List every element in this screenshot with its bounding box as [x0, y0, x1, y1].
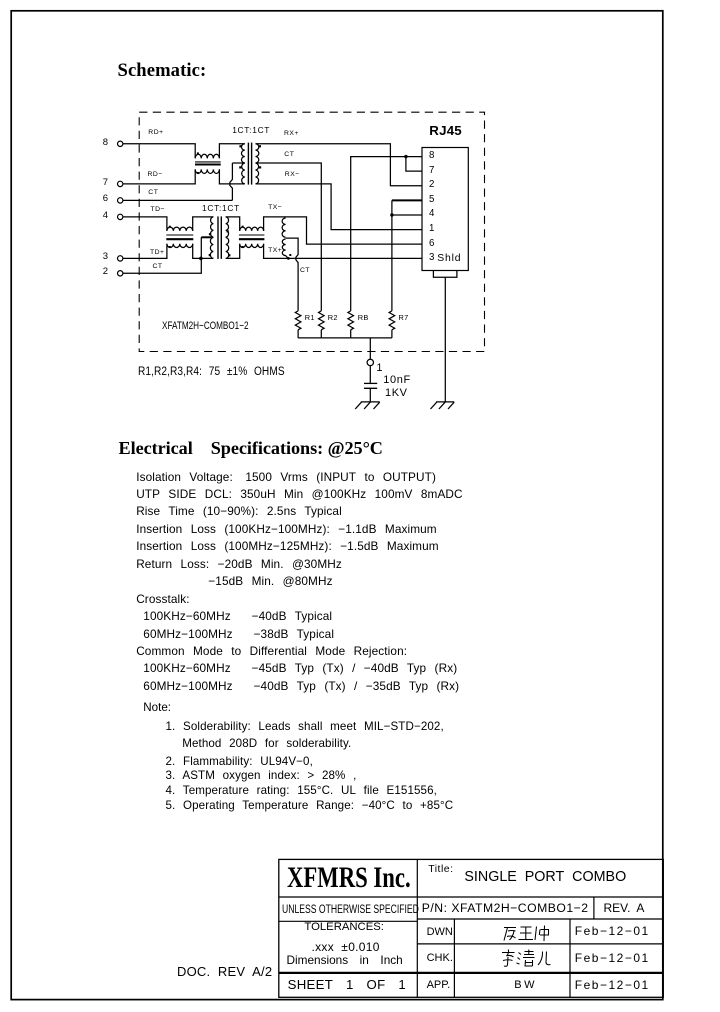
RJ45 pin 7 number — [429, 166, 434, 176]
wire RJ45 pins 5+4 common to R7 — [392, 199, 422, 201]
label resistor RB — [358, 314, 369, 321]
label TD+ — [150, 250, 165, 257]
transformer T4 primary bottom half — [210, 238, 213, 259]
APP signature BW — [514, 980, 537, 991]
title block row line under title — [279, 896, 664, 898]
resistor R7 — [389, 311, 395, 330]
wire node 1 to capacitor C1 — [369, 366, 371, 383]
pin 7 number — [103, 178, 108, 188]
label resistor R2 — [328, 314, 338, 321]
label CT pin2 — [153, 264, 163, 271]
resistor common rail — [298, 337, 392, 339]
transformer T4 secondary bottom half — [226, 238, 229, 259]
wire choke T3 top to transformer T4 primary top — [193, 217, 214, 231]
wire shield to ground — [444, 277, 446, 401]
phase dot T4 primary top — [209, 233, 211, 235]
RJ45 shield tab — [433, 271, 457, 278]
pin 3 terminal circle — [118, 256, 123, 261]
DWN signature (handwritten) — [504, 926, 549, 942]
title block thick line under CHK row — [279, 972, 664, 974]
phase dot T4 secondary top — [227, 230, 229, 232]
label RJ45 — [429, 124, 462, 137]
date DWN — [575, 925, 650, 937]
pin 6 terminal circle — [118, 198, 123, 203]
transformer T4 secondary top half — [226, 217, 229, 237]
pin 4 terminal circle — [118, 214, 123, 219]
resistor R2 — [319, 311, 325, 330]
wire T2 primary center tap stub — [232, 162, 243, 164]
transformer T2 primary top half — [241, 144, 244, 163]
note item 5 — [166, 785, 437, 797]
choke T5 bottom winding — [240, 244, 264, 248]
wire choke T3 bottom to transformer T4 primary bottom — [193, 244, 214, 259]
label 1KV — [385, 388, 408, 399]
field CHK. — [427, 953, 453, 964]
label Shld — [437, 254, 461, 264]
label node 1 — [376, 363, 382, 374]
note heading — [143, 702, 171, 714]
choke T3 bottom winding — [167, 244, 193, 248]
choke T5 top winding — [240, 227, 264, 231]
text Dimensions in Inch — [287, 955, 403, 967]
title block line under P/N — [417, 918, 663, 920]
wire pins5/4 vertical to R7 — [392, 200, 422, 311]
note item 2 — [182, 738, 351, 750]
choke T3 top winding — [167, 227, 193, 231]
text .xxx tolerance — [312, 941, 380, 953]
spec line 6 — [136, 559, 342, 571]
title block divider labels/signatures — [453, 919, 455, 997]
label CT tx — [300, 268, 310, 275]
wire pin4 TD- to choke T3 — [123, 217, 167, 231]
phase dot choke T3 bottom — [169, 246, 171, 248]
autotransformer T6 bottom half — [282, 239, 288, 258]
field REV. A — [604, 902, 645, 914]
phase dot choke T5 bottom — [242, 246, 244, 248]
note resistor values — [138, 367, 305, 379]
phase dot T2 primary bottom — [239, 166, 241, 168]
note item 3 — [166, 756, 313, 768]
title block REV divider — [593, 897, 595, 919]
phase dot T2 secondary top — [259, 145, 261, 147]
label TD- — [151, 207, 166, 214]
text UNLESS OTHERWISE SPECIFIED — [282, 905, 465, 917]
wire choke T1 bottom to transformer T2 primary bottom — [219, 169, 244, 184]
spec line 13 — [143, 681, 459, 693]
spec line 5 — [136, 541, 439, 553]
transformer T2 secondary top half — [256, 144, 259, 163]
wire pin8 RD+ to choke T1 — [123, 144, 195, 159]
field DWN. — [427, 927, 456, 938]
wire pin3 TD+ to choke T3 — [123, 244, 167, 259]
spec line 2 — [136, 489, 462, 501]
label TX- — [268, 205, 282, 212]
choke T5 core — [239, 235, 265, 239]
transformer T2 primary bottom half — [242, 163, 245, 184]
junction dot pins 5/4 — [390, 213, 393, 216]
phase dot T6 — [289, 254, 291, 256]
wire pin6 CT to T2 primary center tap (with crossover jog) — [123, 163, 232, 200]
phase dot choke T1 top — [197, 152, 199, 154]
RJ45 connector body — [422, 148, 468, 271]
wire choke T1 top to transformer T2 primary top — [219, 144, 244, 159]
choke T1 bottom winding — [195, 169, 219, 173]
choke T3 core — [166, 235, 193, 239]
spec line 8 — [136, 594, 189, 606]
title block line under UNLESS — [279, 920, 418, 922]
pin 2 number — [103, 267, 108, 277]
transformer T4 core — [218, 216, 221, 259]
note item 1 — [166, 721, 444, 733]
doc revision DOC. REV A/2 — [177, 965, 272, 978]
RJ45 pin 3 number — [429, 253, 434, 263]
phase dot choke T3 top — [169, 226, 171, 228]
title block divider company/title — [416, 859, 418, 997]
label CT pin6 — [148, 190, 158, 197]
pin 6 number — [103, 194, 108, 204]
label CT rx — [284, 152, 294, 159]
RJ45 pin 2 number — [429, 180, 434, 190]
pin 4 number — [103, 211, 108, 221]
capacitor C1 10nF 1KV — [364, 383, 377, 401]
RJ45 pin 1 number — [429, 224, 434, 234]
label TX+ — [268, 248, 282, 255]
wire T6 center tap to R1 (with crossover jog) — [286, 238, 299, 311]
transformer T2 secondary bottom half — [256, 163, 259, 184]
transformer T4 primary top half — [211, 217, 214, 237]
RJ45 pin 4 number — [429, 209, 434, 219]
label RX- — [285, 172, 300, 179]
wire TX+ (choke T5 bottom to RJ45 pin3) — [264, 244, 422, 259]
field Title: — [428, 864, 453, 875]
phase dot T2 secondary bottom — [259, 166, 261, 168]
title block divider signatures/dates — [569, 919, 571, 997]
label resistor R7 — [399, 314, 409, 321]
wire T2 secondary center tap CT to R2 — [257, 163, 321, 311]
junction dot TD+ / center tap — [199, 257, 203, 261]
RJ45 pin 5 number — [429, 195, 434, 205]
phase dot choke T5 top — [242, 226, 244, 228]
phase dot T2 primary top — [239, 145, 241, 147]
wire T4 secondary top to choke T5 — [226, 217, 240, 231]
title SINGLE PORT COMBO — [464, 870, 626, 884]
company name XFMRS Inc. — [287, 864, 447, 893]
title block outer frame — [279, 859, 664, 997]
label 10nF — [383, 375, 410, 386]
label RD- — [148, 172, 163, 179]
pin 2 terminal circle — [118, 271, 123, 276]
phase dot choke T1 bottom — [197, 172, 199, 174]
date APP — [575, 979, 650, 991]
title block line under DWN row — [417, 943, 663, 945]
transformer T2 core — [248, 143, 251, 185]
date CHK — [575, 952, 650, 964]
choke T1 top winding — [195, 154, 219, 158]
pin 7 terminal circle — [118, 181, 123, 186]
spec line 4 — [136, 524, 437, 536]
note item 4 — [166, 770, 357, 782]
note item 6 — [166, 800, 454, 812]
phase dot T4 primary bottom — [209, 254, 211, 256]
spec line 3 — [136, 506, 342, 518]
ground for shield — [431, 402, 455, 409]
label XFATM2H-COMBO1-2 — [162, 321, 281, 332]
CHK signature (handwritten) — [502, 950, 551, 967]
pin 8 number — [103, 138, 108, 148]
label 1CT:1CT bottom transformer — [202, 204, 240, 212]
spec line 7 — [208, 576, 332, 588]
RJ45 pin 8 number — [429, 151, 434, 161]
wire pin7 RD- to choke T1 — [123, 169, 195, 184]
label 1CT:1CT top transformer — [232, 126, 270, 134]
resistor RB — [348, 311, 354, 330]
wire pin2 CT to T4 primary center tap — [123, 237, 201, 273]
wire RX- (T2 secondary bottom to RJ45 pin1) — [256, 184, 423, 230]
junction dot T6 bottom on TX+ — [287, 257, 290, 260]
wire RJ45 pins 8+7 common to RB — [351, 157, 422, 311]
RJ45 pin 6 number — [429, 239, 434, 249]
autotransformer T6 top half — [282, 218, 285, 237]
wire RX+ (T2 secondary top to RJ45 pin2) — [256, 144, 423, 186]
text TOLERANCES: — [304, 922, 384, 933]
pin 8 terminal circle — [118, 141, 123, 146]
spec line 10 — [143, 629, 334, 641]
wire TX- (choke T5 top to RJ45 pin6) — [264, 217, 422, 244]
node 1 terminal circle — [367, 359, 373, 365]
heading Schematic: — [118, 62, 207, 81]
spec line 1 — [136, 472, 436, 484]
junction dot pins 8/7 — [404, 155, 407, 158]
label RD+ — [148, 130, 163, 137]
spec line 9 — [143, 611, 332, 623]
ground under capacitor — [355, 402, 380, 409]
heading Electrical Specifications — [119, 439, 383, 457]
module boundary (dashed box) — [139, 112, 484, 351]
wire rail to node 1 — [369, 338, 371, 359]
spec line 12 — [143, 663, 457, 675]
wire T4 secondary bottom to choke T5 — [226, 244, 240, 259]
field P/N — [422, 902, 589, 914]
spec line 11 — [136, 646, 407, 658]
phase dot T4 secondary bottom — [228, 254, 230, 256]
label RX+ — [284, 131, 299, 138]
resistor R1 — [295, 311, 301, 330]
label resistor R1 — [305, 314, 315, 321]
pin 3 number — [103, 252, 108, 262]
text SHEET 1 OF 1 — [288, 978, 406, 991]
field APP. — [427, 980, 451, 991]
choke T1 core — [195, 162, 221, 165]
